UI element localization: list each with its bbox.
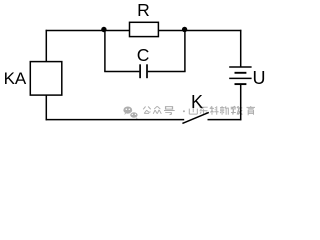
wire: capacitor branch right vertical [184, 31, 186, 72]
wire: top horizontal right of R [158, 30, 241, 32]
wire: capacitor branch left vertical [104, 31, 106, 72]
capacitor C1 plates [139, 64, 141, 78]
resistor R1 box [130, 22, 159, 36]
battery U plates [229, 66, 251, 68]
svg-text:U: U [253, 68, 266, 88]
watermark icon (chat bubbles) [123, 107, 138, 120]
wire: top horizontal left of R [46, 30, 130, 32]
wire: capacitor branch horizontal left [104, 71, 139, 73]
relay coil KA box [30, 62, 62, 96]
wire: bottom horizontal right [208, 119, 242, 121]
switch K blade [182, 112, 208, 123]
wire: top-left vertical (top node to KA) [45, 30, 47, 63]
wire: capacitor branch horizontal right [148, 71, 186, 73]
wire: right vertical below battery [240, 84, 242, 120]
node: right junction [182, 27, 187, 32]
wire: KA bottom vertical [45, 95, 47, 120]
svg-text:R: R [137, 0, 150, 20]
svg-text:C: C [137, 45, 150, 65]
svg-text:K: K [191, 92, 203, 112]
node: left junction [101, 27, 106, 32]
wire: right vertical above battery [240, 30, 242, 67]
svg-text:KA: KA [4, 69, 27, 88]
watermark text (drawn glyphs) [143, 106, 255, 115]
wire: bottom horizontal left [46, 119, 185, 121]
